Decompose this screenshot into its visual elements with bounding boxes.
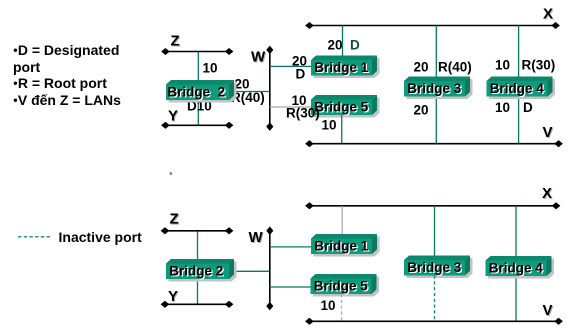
bridge B1 (top) xyxy=(311,56,380,79)
bridge B5 (bottom) xyxy=(311,274,380,297)
svg-text:W: W xyxy=(251,49,266,66)
svg-text:20: 20 xyxy=(328,38,343,53)
svg-text:Bridge 2: Bridge 2 xyxy=(167,85,225,100)
wire W to Bridge 5 (bottom) xyxy=(270,286,311,288)
svg-text:R(30): R(30) xyxy=(286,106,320,121)
wire W to Bridge 1 xyxy=(270,65,311,67)
svg-text:Bridge 3: Bridge 3 xyxy=(407,81,462,96)
bridge B2 (bottom) xyxy=(166,259,237,282)
svg-text:Y: Y xyxy=(168,288,178,305)
wire X to Bridge 1 (bottom, grey) xyxy=(341,206,343,236)
svg-text:D: D xyxy=(350,38,360,53)
legend: port abbreviation definitions xyxy=(13,42,121,110)
bridge B2 (top) xyxy=(166,80,237,103)
svg-text:10: 10 xyxy=(203,61,218,76)
wire X to Bridge 1 xyxy=(342,26,344,58)
LAN Y (bottom) xyxy=(165,303,230,305)
svg-text:Bridge 5: Bridge 5 xyxy=(314,279,369,294)
LAN X xyxy=(309,25,556,27)
bridge B1 (bottom) xyxy=(311,234,380,257)
svg-text:10: 10 xyxy=(495,58,510,73)
bridge B5 (top) xyxy=(311,95,380,118)
wire X to V through Bridge 4 xyxy=(518,26,520,144)
svg-text:X: X xyxy=(542,185,552,202)
inactive wire Bridge 3 to V (dashed teal) xyxy=(434,276,436,321)
svg-text:V: V xyxy=(543,124,553,141)
wire Bridge 2 to Y xyxy=(197,100,199,125)
svg-text:R(40): R(40) xyxy=(438,60,472,75)
LAN Y xyxy=(165,124,230,126)
wire Bridge 2 to W (bottom) xyxy=(230,270,270,272)
wire X to Bridge 3 (bottom) xyxy=(434,206,436,261)
svg-text:Z: Z xyxy=(171,33,180,50)
inactive wire Bridge 5 to V (dashed grey) xyxy=(341,294,343,321)
wire W to Bridge 1 (bottom) xyxy=(270,246,311,248)
svg-text:Bridge 4: Bridge 4 xyxy=(490,81,545,96)
legend dashed line: inactive port xyxy=(18,236,52,238)
svg-text:R(30): R(30) xyxy=(522,58,556,73)
svg-text:10: 10 xyxy=(322,118,337,133)
legend: inactive port xyxy=(59,229,142,245)
wire W to Bridge 5 xyxy=(270,106,311,108)
svg-text:X: X xyxy=(543,6,553,23)
svg-text:Bridge 3: Bridge 3 xyxy=(407,260,462,275)
wire Z to Bridge 2 (bottom) xyxy=(197,231,199,261)
svg-text:D: D xyxy=(523,100,533,115)
LAN X (bottom) xyxy=(309,205,557,207)
svg-text:D: D xyxy=(296,67,306,82)
bridge B4 (top) xyxy=(487,77,556,100)
wire Z to Bridge 2 xyxy=(197,52,199,83)
LAN V (bottom) xyxy=(309,320,559,322)
stray cursor mark xyxy=(170,172,173,175)
svg-text:Bridge 5: Bridge 5 xyxy=(314,100,369,115)
svg-text:Y: Y xyxy=(168,108,178,125)
svg-text:Bridge 1: Bridge 1 xyxy=(314,60,369,75)
svg-text:Z: Z xyxy=(170,211,179,228)
svg-text:Bridge 4: Bridge 4 xyxy=(489,261,544,276)
svg-text:10: 10 xyxy=(495,100,510,115)
wire X to V through Bridge 4 (bottom) xyxy=(515,206,517,321)
svg-text:20: 20 xyxy=(414,60,429,75)
wire Bridge 2 to Y (bottom) xyxy=(197,279,199,304)
LAN V (top) xyxy=(309,143,559,145)
wire X to V through Bridge 3 xyxy=(435,26,437,144)
svg-text:20: 20 xyxy=(414,103,429,118)
bridge B4 (bottom) xyxy=(486,256,555,279)
bridge B3 (top) xyxy=(404,77,473,100)
svg-text:V: V xyxy=(543,302,553,319)
svg-text:W: W xyxy=(249,229,264,246)
LAN Z (bottom) xyxy=(165,230,230,232)
svg-text:Bridge 1: Bridge 1 xyxy=(314,239,369,254)
LAN W xyxy=(269,50,271,128)
svg-text:10: 10 xyxy=(321,298,336,313)
bridge B3 (bottom) xyxy=(404,256,473,279)
LAN Z xyxy=(165,51,230,53)
wire Bridge 2 to W xyxy=(230,91,270,93)
svg-text:Bridge 2: Bridge 2 xyxy=(169,264,223,279)
wire Bridge 5 to V xyxy=(341,115,343,143)
LAN W (bottom) xyxy=(269,230,271,306)
